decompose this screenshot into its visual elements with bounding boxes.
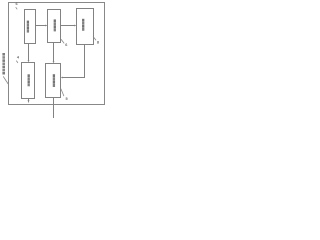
svg-text:4: 4 bbox=[17, 55, 20, 59]
svg-text:8: 8 bbox=[97, 40, 99, 44]
svg-text:5: 5 bbox=[66, 97, 68, 101]
svg-text:6: 6 bbox=[65, 43, 67, 47]
svg-text:6: 6 bbox=[15, 2, 17, 6]
